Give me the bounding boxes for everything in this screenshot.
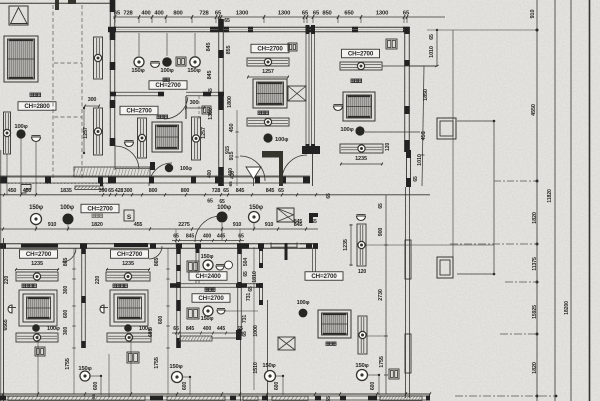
svg-text:65: 65 xyxy=(238,234,244,240)
svg-text:4550: 4550 xyxy=(531,104,537,116)
svg-text:600: 600 xyxy=(93,382,99,390)
svg-text:100φ: 100φ xyxy=(60,205,75,211)
svg-text:65: 65 xyxy=(302,11,309,17)
svg-text:600: 600 xyxy=(63,310,69,318)
svg-text:65: 65 xyxy=(223,188,229,194)
svg-text:65: 65 xyxy=(242,331,248,337)
svg-text:150φ: 150φ xyxy=(187,68,200,74)
svg-text:450: 450 xyxy=(421,132,427,141)
svg-text:800: 800 xyxy=(173,11,182,17)
svg-text:910: 910 xyxy=(233,222,242,228)
svg-text:150φ: 150φ xyxy=(201,254,214,260)
svg-text:150φ: 150φ xyxy=(29,205,44,211)
svg-text:CH=2800: CH=2800 xyxy=(24,103,50,110)
svg-text:150φ: 150φ xyxy=(249,205,264,211)
svg-text:800: 800 xyxy=(181,188,190,194)
svg-text:65: 65 xyxy=(215,11,222,17)
svg-text:65: 65 xyxy=(429,34,435,40)
svg-text:845: 845 xyxy=(207,71,213,80)
svg-text:150φ: 150φ xyxy=(355,363,368,369)
svg-text:150φ: 150φ xyxy=(169,364,182,370)
svg-text:65: 65 xyxy=(248,286,254,292)
svg-text:65: 65 xyxy=(326,396,332,401)
svg-text:65: 65 xyxy=(173,326,179,332)
svg-text:845: 845 xyxy=(236,188,245,194)
svg-text:1257: 1257 xyxy=(262,69,274,75)
svg-text:1510: 1510 xyxy=(253,362,259,374)
svg-text:65: 65 xyxy=(114,11,121,17)
svg-text:855: 855 xyxy=(226,46,232,55)
svg-text:65: 65 xyxy=(278,188,284,194)
svg-text:845: 845 xyxy=(186,326,194,332)
svg-text:1850: 1850 xyxy=(423,89,429,101)
svg-text:65: 65 xyxy=(208,88,214,94)
svg-text:400: 400 xyxy=(154,11,163,17)
svg-text:100φ: 100φ xyxy=(139,326,152,332)
svg-text:65: 65 xyxy=(413,176,419,182)
svg-text:150φ: 150φ xyxy=(201,316,214,322)
svg-text:CH=2700: CH=2700 xyxy=(26,251,52,258)
svg-text:220: 220 xyxy=(95,276,101,284)
svg-text:CH=2700: CH=2700 xyxy=(348,51,374,58)
svg-text:910: 910 xyxy=(48,222,57,228)
svg-text:1235: 1235 xyxy=(122,261,134,267)
svg-text:845: 845 xyxy=(206,43,212,52)
svg-text:600: 600 xyxy=(158,316,164,324)
svg-text:445: 445 xyxy=(217,326,225,332)
svg-text:865: 865 xyxy=(154,258,160,267)
svg-text:100φ: 100φ xyxy=(160,68,173,74)
svg-text:65: 65 xyxy=(313,11,320,17)
svg-text:600: 600 xyxy=(370,382,376,390)
svg-text:2275: 2275 xyxy=(178,222,190,228)
svg-text:600: 600 xyxy=(182,382,188,390)
svg-text:450: 450 xyxy=(229,124,235,133)
svg-text:CH=2700: CH=2700 xyxy=(155,82,181,89)
svg-text:728: 728 xyxy=(123,11,133,17)
svg-text:1755: 1755 xyxy=(65,358,71,370)
svg-text:845: 845 xyxy=(266,188,275,194)
svg-text:1010: 1010 xyxy=(429,46,435,58)
svg-text:18200: 18200 xyxy=(564,301,570,315)
svg-text:300: 300 xyxy=(63,327,69,335)
svg-text:100φ: 100φ xyxy=(297,300,310,306)
svg-text:450: 450 xyxy=(23,188,32,194)
svg-text:1010: 1010 xyxy=(417,154,423,166)
svg-text:400: 400 xyxy=(141,11,150,17)
svg-text:CH=2700: CH=2700 xyxy=(198,295,224,302)
svg-text:CH=2400: CH=2400 xyxy=(195,273,221,280)
svg-text:400: 400 xyxy=(228,168,234,176)
svg-text:65: 65 xyxy=(224,18,230,24)
svg-text:1300: 1300 xyxy=(236,11,248,17)
svg-text:300: 300 xyxy=(190,100,199,106)
svg-text:428: 428 xyxy=(115,188,124,194)
svg-text:1235: 1235 xyxy=(31,261,43,267)
svg-text:CH=2700: CH=2700 xyxy=(311,273,337,280)
svg-text:1835: 1835 xyxy=(60,188,72,194)
svg-text:1000: 1000 xyxy=(253,325,259,337)
svg-text:100φ: 100φ xyxy=(14,124,27,130)
svg-text:400: 400 xyxy=(203,234,211,240)
svg-text:850: 850 xyxy=(322,11,331,17)
svg-text:455: 455 xyxy=(134,222,143,228)
svg-text:CH=2700: CH=2700 xyxy=(126,108,152,115)
svg-text:6565: 6565 xyxy=(3,319,9,330)
svg-text:65: 65 xyxy=(311,219,317,225)
svg-text:CH=2700: CH=2700 xyxy=(87,206,113,213)
svg-text:900: 900 xyxy=(378,228,384,237)
svg-text:910: 910 xyxy=(265,222,274,228)
svg-text:400: 400 xyxy=(207,170,213,178)
svg-text:1755: 1755 xyxy=(154,357,160,369)
svg-text:1820: 1820 xyxy=(91,222,103,228)
svg-text:865: 865 xyxy=(63,258,69,267)
svg-text:11820: 11820 xyxy=(547,189,553,203)
svg-text:731: 731 xyxy=(242,315,248,323)
svg-text:65: 65 xyxy=(243,271,249,277)
svg-text:65: 65 xyxy=(108,188,114,194)
svg-text:300: 300 xyxy=(88,97,97,103)
svg-text:65: 65 xyxy=(207,199,213,205)
svg-text:150φ: 150φ xyxy=(131,68,144,74)
svg-text:1300: 1300 xyxy=(376,11,388,17)
svg-text:100φ: 100φ xyxy=(180,166,192,172)
svg-text:1810: 1810 xyxy=(252,271,258,283)
svg-text:2730: 2730 xyxy=(378,289,384,301)
svg-text:100φ: 100φ xyxy=(217,205,232,211)
svg-text:390: 390 xyxy=(99,188,108,194)
svg-text:845: 845 xyxy=(294,219,302,225)
svg-text:400: 400 xyxy=(203,326,211,332)
svg-text:650: 650 xyxy=(344,11,353,17)
svg-text:731: 731 xyxy=(246,293,252,301)
svg-text:120: 120 xyxy=(385,143,391,151)
svg-text:1820: 1820 xyxy=(532,212,538,224)
svg-text:1257: 1257 xyxy=(201,127,207,139)
svg-text:600: 600 xyxy=(274,382,280,390)
svg-text:65: 65 xyxy=(228,181,234,187)
svg-text:1755: 1755 xyxy=(379,356,385,368)
svg-text:845: 845 xyxy=(186,234,194,240)
svg-text:445: 445 xyxy=(217,234,225,240)
svg-text:1820: 1820 xyxy=(532,362,538,374)
svg-text:1800: 1800 xyxy=(227,96,233,108)
svg-text:728: 728 xyxy=(199,11,209,17)
svg-text:800: 800 xyxy=(149,188,158,194)
svg-text:100φ: 100φ xyxy=(47,326,60,332)
svg-text:915: 915 xyxy=(225,146,231,154)
svg-text:220: 220 xyxy=(4,276,10,284)
svg-text:1235: 1235 xyxy=(343,239,349,251)
svg-text:300: 300 xyxy=(124,188,133,194)
svg-text:CH=2700: CH=2700 xyxy=(117,251,143,258)
svg-text:728: 728 xyxy=(212,188,221,194)
svg-text:504: 504 xyxy=(243,258,249,266)
svg-text:150φ: 150φ xyxy=(262,363,275,369)
svg-text:11375: 11375 xyxy=(532,257,538,271)
svg-text:1300: 1300 xyxy=(278,11,290,17)
svg-text:300: 300 xyxy=(63,286,69,294)
svg-text:65: 65 xyxy=(378,203,384,209)
svg-text:910: 910 xyxy=(530,10,536,19)
svg-text:100φ: 100φ xyxy=(340,127,353,133)
svg-text:15925: 15925 xyxy=(532,305,538,319)
svg-text:120: 120 xyxy=(358,269,366,275)
svg-text:1235: 1235 xyxy=(355,156,367,162)
svg-text:100φ: 100φ xyxy=(275,137,288,143)
svg-text:CH=2700: CH=2700 xyxy=(257,46,283,53)
svg-text:65: 65 xyxy=(403,11,410,17)
svg-text:450: 450 xyxy=(8,188,17,194)
svg-text:65: 65 xyxy=(326,193,332,199)
